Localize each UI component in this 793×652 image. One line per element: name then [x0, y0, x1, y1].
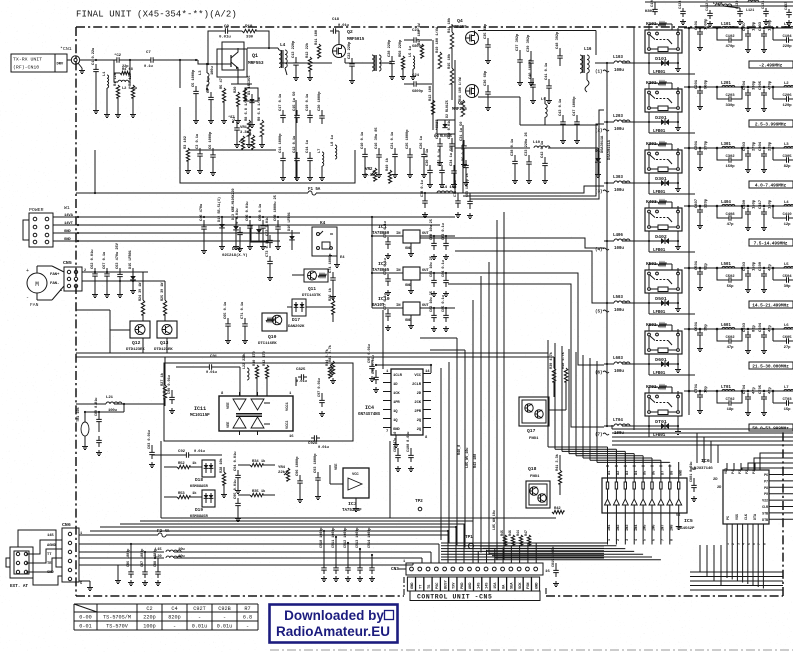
node (1): [595, 70, 609, 75]
svg-text:*C2: *C2: [114, 53, 122, 58]
capacitor C407 220p: [695, 198, 709, 228]
svg-text:Q17: Q17: [527, 428, 536, 434]
connector CN6: [47, 522, 83, 586]
resistor R30 470: [253, 351, 259, 378]
capacitor C37 392p: [516, 33, 523, 86]
svg-text:PKD: PKD: [461, 582, 465, 589]
svg-text:47p: 47p: [769, 386, 773, 394]
svg-text:C35 68p: C35 68p: [484, 23, 488, 39]
resistor R15 10k: [447, 53, 454, 84]
svg-text:R39 4.7k: R39 4.7k: [549, 351, 554, 369]
svg-text:W1: W1: [64, 205, 70, 211]
svg-text:L85_WV_10u: L85_WV_10u: [466, 448, 470, 468]
svg-text:82p: 82p: [784, 165, 792, 169]
svg-text:R27 1k: R27 1k: [160, 372, 165, 386]
capacitor C509 47p: [759, 261, 773, 292]
capacitor C8 0.1u: [207, 78, 214, 124]
capacitor C23 6800p: [404, 29, 432, 49]
svg-text:M: M: [35, 281, 39, 288]
resistor R5b loop: [231, 77, 258, 101]
transformer L4: [278, 42, 287, 75]
svg-text:6800p: 6800p: [412, 90, 424, 94]
svg-text:220p: 220p: [769, 141, 773, 151]
thermistor TH1: [76, 406, 89, 449]
capacitor C36 68p: [484, 70, 491, 110]
inductor L603 100u: [604, 356, 649, 374]
svg-text:14S: 14S: [47, 534, 54, 538]
resistor R84 2.7k: [325, 348, 332, 378]
svg-text:C21 0.1u: C21 0.1u: [391, 132, 395, 149]
wire IC4 surround: [375, 310, 432, 373]
svg-text:MRF5015: MRF5015: [347, 37, 365, 42]
svg-text:TP2: TP2: [415, 498, 423, 504]
capacitor C9 0.01u: [219, 25, 232, 40]
svg-text:C83 0.1u: C83 0.1u: [442, 223, 446, 240]
svg-text:VR1: VR1: [240, 126, 248, 130]
svg-text:7.5-14.499MHz: 7.5-14.499MHz: [754, 241, 788, 247]
svg-text:L203: L203: [613, 114, 623, 119]
svg-text:C206: C206: [782, 94, 792, 98]
svg-text:P3: P3: [739, 470, 743, 474]
svg-text:TX-RX UNIT: TX-RX UNIT: [13, 57, 42, 63]
connector TX-RX UNIT (RF)-CN10: [11, 54, 67, 72]
svg-text:R25 39 1W: R25 39 1W: [161, 282, 165, 301]
diode D13 KRE-M105K220: [232, 189, 239, 250]
capacitor C120: [645, 0, 665, 15]
svg-text:47p: 47p: [753, 386, 757, 394]
capacitor C17 0.1u: [279, 94, 286, 123]
capacitor C27 *C927: [435, 120, 443, 166]
svg-text:R44: R44: [517, 530, 521, 536]
capacitor C104 220p: [773, 28, 793, 49]
svg-text:2CK: 2CK: [414, 401, 421, 405]
svg-text:C86 1000p: C86 1000p: [127, 549, 131, 567]
svg-text:C12 0.1u: C12 0.1u: [293, 136, 297, 153]
capacitor C80 10u 25: [430, 219, 437, 259]
capacitor C78 0.1u: [421, 180, 428, 217]
svg-text:1PR: 1PR: [393, 401, 400, 405]
svg-text:C32 0.1u: C32 0.1u: [438, 149, 442, 166]
svg-text:100u: 100u: [211, 66, 215, 75]
resistor R26 1k: [306, 287, 335, 322]
svg-text:5: 5: [80, 582, 82, 586]
capacitor C03 0.01u: [148, 430, 155, 467]
IC U11 MC10115P: [190, 392, 294, 439]
svg-text:6: 6: [752, 543, 756, 545]
svg-text:L7: L7: [784, 386, 789, 390]
svg-text:D19: D19: [195, 507, 203, 513]
svg-text:D6 0.01u: D6 0.01u: [462, 144, 466, 161]
diode DT01 LFB01: [648, 419, 695, 438]
svg-text:C28 220p: C28 220p: [388, 39, 392, 57]
svg-text:100u: 100u: [614, 188, 624, 193]
capacitor C92 0.01u: [152, 450, 222, 458]
capacitor C501 82p: [695, 260, 709, 290]
wire bundle regulators to filters: [420, 110, 604, 427]
inductor L3 100u: [199, 63, 215, 92]
svg-text:C18: C18: [332, 18, 340, 22]
table version options: [74, 604, 258, 630]
svg-text:(5): (5): [595, 310, 602, 315]
label frequency -2.499MHz: [749, 61, 793, 69]
svg-text:CLR: CLR: [762, 506, 769, 510]
inductor L702 edge: [784, 386, 793, 391]
svg-text:2PR: 2PR: [414, 410, 421, 414]
svg-text:C30 0.1u: C30 0.1u: [426, 149, 430, 166]
capacitor C3 0.1u: [196, 134, 203, 174]
svg-text:R13 100: R13 100: [429, 85, 433, 101]
capacitor C10 0.1u: [361, 132, 368, 178]
capacitor C410 12p: [773, 206, 793, 227]
capacitor C128: [679, 0, 686, 25]
capacitor C603 82p: [743, 322, 757, 353]
label frequency 14.5-21.499MHz: [749, 301, 793, 309]
label frequency 2.5-3.999MHz: [749, 120, 793, 128]
capacitor *C4: [232, 116, 240, 148]
capacitor C85 0.1u: [442, 295, 449, 331]
svg-text:C89 0.01u: C89 0.01u: [95, 398, 99, 416]
capacitor C301 270p: [695, 140, 709, 170]
connector CN5 fan: [50, 260, 86, 300]
svg-text:AGND: AGND: [47, 544, 57, 548]
label frequency 50.0-53.999MHz: [749, 424, 793, 432]
svg-text:C81 10u 25: C81 10u 25: [430, 256, 434, 277]
capacitor C503 150p: [743, 261, 757, 292]
wire filter row K101 output: [684, 27, 793, 52]
svg-text:C48 392p: C48 392p: [556, 31, 560, 49]
capacitor C130: [736, 0, 743, 25]
svg-text:C69 0.1u: C69 0.1u: [259, 204, 263, 221]
svg-text:47p: 47p: [727, 346, 735, 350]
IC U6 NJU3714G: [694, 458, 793, 524]
capacitor C101 1000p: [695, 18, 709, 51]
IC U4 GN74S74NS: [358, 369, 431, 448]
svg-text:820p: 820p: [168, 615, 180, 621]
regulator IC1 TA78050: [372, 224, 455, 257]
svg-text:0.01u: 0.01u: [192, 624, 208, 630]
svg-text:R1 120: R1 120: [114, 72, 118, 86]
svg-text:IN6: IN6: [653, 524, 657, 531]
svg-text:VSS: VSS: [736, 514, 740, 520]
capacitor C825 0.01u: [296, 368, 307, 384]
svg-text:27p: 27p: [784, 346, 792, 350]
inductor L14 10u: [437, 186, 457, 193]
svg-text:-2.499MHz: -2.499MHz: [759, 63, 783, 69]
node (5): [595, 310, 609, 315]
svg-text:AKD: AKD: [469, 582, 473, 589]
svg-text:R42: R42: [554, 507, 561, 511]
wire left border taps: [76, 310, 110, 404]
diode D402 LFB01: [648, 234, 695, 253]
wire Q1 feedback loop: [207, 31, 278, 65]
svg-text:R24 39 1W: R24 39 1W: [139, 282, 143, 301]
svg-text:47p: 47p: [727, 223, 735, 227]
capacitor C79 0.1u: [454, 180, 461, 217]
svg-text:C65 0.1u: C65 0.1u: [224, 302, 228, 319]
svg-text:IN7: IN7: [662, 525, 666, 531]
capacitor C21 0.1u: [391, 132, 398, 178]
svg-text:L2 5.6u: L2 5.6u: [122, 87, 137, 91]
label frequency 7.5-14.499MHz: [749, 239, 793, 247]
svg-text:C92T: C92T: [193, 606, 205, 612]
svg-text:*87: *87: [228, 115, 234, 120]
svg-text:C605: C605: [782, 336, 792, 340]
test point TP1: [465, 534, 474, 549]
svg-text:1800p: 1800p: [769, 19, 773, 31]
svg-text:P9: P9: [764, 493, 768, 497]
wire Q12 Q13 to bus: [110, 330, 167, 353]
svg-text:C11 1000p: C11 1000p: [279, 133, 283, 153]
svg-text:C36 68p: C36 68p: [484, 70, 488, 86]
svg-text:L120: L120: [713, 2, 723, 6]
svg-text:100u: 100u: [614, 308, 624, 313]
svg-text:150p: 150p: [753, 261, 757, 271]
svg-text:39p: 39p: [784, 285, 792, 289]
resistor R1 120: [114, 72, 121, 117]
capacitor C72 0.01u: [266, 217, 273, 248]
capacitor C31 1u 50: [460, 121, 467, 168]
capacitor C605 27p: [773, 329, 793, 350]
svg-text:C604: C604: [759, 322, 763, 332]
capacitor C89 0.01u lower: [95, 398, 102, 432]
transformer T2: [345, 55, 392, 71]
svg-text:MRF255: MRF255: [452, 107, 467, 112]
capacitor C302 150p: [717, 148, 742, 169]
capacitor C206 120p: [773, 87, 793, 108]
capacitor C5 1000p: [192, 69, 199, 124]
node (3): [595, 190, 609, 195]
transistor Q11 DTC143TK: [292, 269, 328, 298]
labels CONTROL UNIT CN5 pin names: [407, 577, 539, 591]
capacitor C84 0.1u: [442, 260, 449, 296]
svg-text:TS-570V: TS-570V: [106, 624, 129, 630]
svg-text:C72 0.01u: C72 0.01u: [266, 217, 270, 236]
resistor R20: [234, 86, 241, 124]
capacitor C28 220p: [388, 39, 395, 80]
resistor R25 39 1W: [161, 281, 167, 321]
svg-text:C88 1000p: C88 1000p: [154, 549, 158, 567]
svg-text:10p: 10p: [705, 385, 709, 393]
svg-text:FAN-: FAN-: [50, 282, 59, 286]
svg-text:DAN202K: DAN202K: [288, 325, 305, 329]
diode D15 LFB01: [129, 249, 136, 293]
svg-text:L6: L6: [784, 324, 789, 328]
svg-text:TH1 10k: TH1 10k: [76, 406, 81, 422]
node (7): [595, 433, 609, 438]
svg-text:L8 1u: L8 1u: [331, 135, 335, 146]
svg-text:L503: L503: [613, 295, 623, 300]
test point TP2: [415, 498, 423, 511]
relay K403: [645, 199, 682, 241]
capacitor C502 56p: [717, 268, 742, 289]
wire IC11 outer frame: [164, 363, 353, 441]
svg-text:4.0-7.499MHz: 4.0-7.499MHz: [755, 183, 787, 189]
svg-text:C85 0.1u: C85 0.1u: [442, 295, 446, 312]
wire bundle left fan to control strip: [90, 521, 473, 565]
svg-text:L9: L9: [541, 98, 546, 102]
svg-text:C6 1000p: C6 1000p: [209, 131, 213, 149]
svg-text:C39 392p: C39 392p: [527, 34, 531, 52]
capacitor D6 0.01u: [462, 144, 469, 186]
resistor R19 100 1/4W: [435, 26, 442, 68]
resistor R3 102: [184, 135, 191, 173]
inductor LT04 100u: [604, 418, 649, 436]
svg-text:Q11: Q11: [308, 286, 316, 292]
capacitor C26 1u: [420, 136, 427, 177]
inductor L602 edge: [784, 324, 793, 329]
svg-text:L3: L3: [784, 143, 789, 147]
svg-text:220p: 220p: [143, 615, 155, 621]
svg-text:14VT: 14VT: [64, 222, 74, 226]
svg-text:R86 2.7k: R86 2.7k: [328, 344, 333, 362]
svg-text:L303: L303: [613, 175, 623, 180]
svg-text:C75 0.1u: C75 0.1u: [384, 221, 388, 238]
svg-text:-: -: [26, 295, 29, 301]
inductor L601: [721, 323, 735, 329]
svg-text:C34 1u 50: C34 1u 50: [450, 146, 454, 166]
svg-text:330: 330: [246, 36, 254, 40]
svg-text:VEE: VEE: [227, 402, 231, 409]
capacitor C25 1000p: [406, 129, 413, 178]
svg-text:L2: L2: [784, 82, 789, 86]
svg-text:220p: 220p: [705, 198, 709, 208]
svg-text:C503: C503: [743, 261, 747, 271]
node CN1: [60, 46, 85, 74]
svg-text:C89 47u 10: C89 47u 10: [394, 432, 398, 452]
svg-text:CN6: CN6: [62, 522, 71, 528]
svg-text:TA75393F: TA75393F: [342, 508, 362, 513]
transistor Q17 FNG1: [519, 397, 549, 441]
svg-text:LT04: LT04: [613, 418, 623, 423]
capacitor C107 150p: [743, 21, 757, 52]
svg-text:C40 1000p: C40 1000p: [529, 59, 533, 79]
svg-text:100u: 100u: [614, 127, 624, 132]
transistor Q5 MRF255: [452, 85, 479, 113]
motor FAN: [26, 266, 52, 308]
svg-text:C303: C303: [743, 141, 747, 151]
inductor L301: [721, 142, 735, 148]
svg-text:YR4: YR4: [278, 466, 286, 470]
diode D1 165355: [248, 75, 255, 128]
svg-text:P6: P6: [764, 474, 768, 478]
node (2): [595, 129, 609, 134]
svg-text:D1 165355: D1 165355: [248, 75, 252, 95]
svg-text:L21: L21: [106, 396, 114, 400]
svg-text:0.1u: 0.1u: [144, 65, 153, 69]
resistor R53 1k: [164, 491, 197, 499]
svg-text:1: 1: [726, 543, 730, 545]
svg-text:(7): (7): [595, 433, 602, 438]
svg-text:OUT: OUT: [422, 304, 429, 308]
svg-text:VCC1: VCC1: [286, 401, 290, 411]
svg-text:CT02: CT02: [725, 398, 735, 402]
svg-text:C90 0.01u: C90 0.01u: [168, 375, 172, 394]
wire filter row K501 output: [684, 267, 793, 292]
svg-text:MRF553: MRF553: [248, 60, 264, 66]
capacitor C12 0.1u: [293, 136, 300, 181]
svg-text:R8 6.8 1/4W: R8 6.8 1/4W: [244, 96, 249, 121]
svg-text:V8: V8: [676, 514, 680, 518]
capacitor C801 0.01u: [690, 462, 697, 502]
capacitor C74 1000p: [329, 253, 336, 300]
svg-text:R7: R7: [244, 606, 250, 612]
svg-text:150p: 150p: [753, 21, 757, 31]
capacitor C103 1800p: [759, 19, 773, 53]
svg-text:VEE: VEE: [335, 463, 339, 470]
capacitor C97 0.01u: [318, 378, 325, 416]
inductor L21 100u: [76, 396, 165, 413]
wire bundle IC5 to strip: [480, 546, 604, 558]
svg-text:D7: D7: [662, 471, 666, 475]
capacitor C91 0.01u: [176, 355, 240, 375]
capacitor C99b: [84, 404, 124, 456]
svg-text:C41 0.1u: C41 0.1u: [545, 63, 549, 80]
label frequency 4.0-7.499MHz: [749, 181, 793, 189]
capacitor C303 270p: [743, 141, 757, 172]
resistor R9 6.8 1/4W: [257, 96, 265, 147]
capacitor C601 39p: [695, 321, 709, 351]
capacitor CT04 47p: [743, 384, 757, 415]
test point *87: [228, 115, 234, 123]
svg-text:V22: V22: [762, 500, 768, 504]
inductor L101: [721, 22, 735, 28]
transistor Q13 DTD123EK: [154, 321, 177, 352]
svg-text:C304: C304: [759, 141, 763, 151]
svg-text:R35 1k: R35 1k: [252, 489, 266, 494]
svg-text:L7: L7: [318, 149, 322, 153]
svg-text:0.01u: 0.01u: [318, 446, 329, 450]
diode D101 LFB01: [648, 56, 695, 75]
svg-text:4: 4: [742, 543, 746, 545]
svg-text:R48_0: R48_0: [458, 445, 462, 455]
svg-text:DTA: DTA: [754, 513, 758, 520]
svg-text:C7: C7: [146, 51, 151, 55]
svg-text:C43 0.1u: C43 0.1u: [559, 99, 563, 116]
svg-text:C501: C501: [695, 260, 699, 270]
svg-text:R11 100: R11 100: [315, 29, 319, 45]
svg-text:DTD123EK: DTD123EK: [126, 348, 145, 352]
svg-text:C22 220p: C22 220p: [348, 41, 352, 59]
svg-text:270p: 270p: [705, 140, 709, 150]
capacitor C2 22p: [114, 53, 129, 69]
capacitor C604 47p: [759, 322, 773, 353]
svg-text:C74 1000p: C74 1000p: [329, 253, 333, 273]
capacitor C18 0.01u: [330, 18, 349, 44]
svg-text:R34 1k: R34 1k: [252, 459, 266, 464]
svg-text:NJU3714G: NJU3714G: [694, 467, 713, 471]
svg-text:82p: 82p: [705, 262, 709, 270]
resistor R10 330: [242, 25, 256, 40]
svg-text:100u: 100u: [614, 68, 624, 73]
svg-text:Q10: Q10: [268, 334, 277, 340]
svg-text:C68 1000u 25: C68 1000u 25: [274, 194, 278, 221]
wire Q1 input: [180, 59, 197, 88]
svg-text:R15 10k: R15 10k: [447, 53, 452, 69]
svg-text:5: 5: [644, 539, 648, 541]
capacitor C913 1000p: [356, 528, 363, 582]
capacitor C22 220p: [348, 41, 355, 84]
diode D2 RL01Z5: [446, 100, 450, 118]
svg-text:R30 470: R30 470: [253, 351, 257, 366]
svg-text:R49 1k: R49 1k: [385, 157, 390, 171]
svg-text:K801: K801: [645, 10, 655, 14]
svg-text:FAN+: FAN+: [50, 273, 60, 277]
inductor L303 100u: [604, 175, 649, 193]
svg-text:C201: C201: [695, 79, 699, 89]
inductor L402 edge: [784, 201, 793, 206]
fuse F2 4A: [155, 529, 172, 537]
svg-text:15p: 15p: [784, 408, 792, 412]
